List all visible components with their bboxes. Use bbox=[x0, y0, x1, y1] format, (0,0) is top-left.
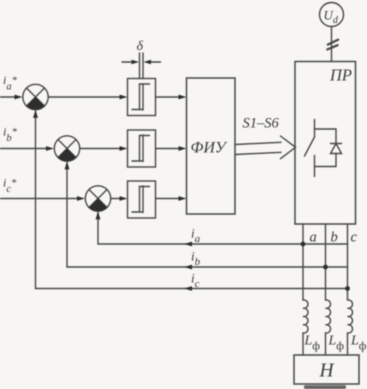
transistor switch VT inside PR bbox=[305, 120, 337, 177]
svg-text:ФИУ: ФИУ bbox=[191, 140, 228, 157]
filter inductor L_f phase c bbox=[348, 300, 353, 355]
svg-text:δ: δ bbox=[137, 39, 144, 54]
summing junction S1 (phase a comparator) bbox=[23, 84, 48, 109]
svg-text:Lф: Lф bbox=[304, 334, 321, 353]
svg-text:ic: ic bbox=[191, 271, 200, 291]
delta measuring arrow right bbox=[144, 60, 161, 64]
wire input i_b* into S2 bbox=[0, 146, 54, 151]
hysteresis relay block RB2 bbox=[128, 130, 156, 167]
diode VD antiparallel inside PR bbox=[331, 129, 342, 167]
arrowhead on i_a wire bbox=[184, 242, 192, 247]
wire U_d to PR bbox=[331, 27, 333, 62]
svg-text:ib*: ib* bbox=[3, 125, 18, 145]
junction node a bbox=[301, 242, 306, 247]
hysteresis relay block RB1 bbox=[128, 79, 156, 116]
wire S3 to relay block RB3 bbox=[111, 196, 128, 201]
block FIU (pulse former unit) bbox=[187, 78, 236, 214]
break slashes on DC link wire bbox=[327, 40, 338, 50]
svg-text:Ud: Ud bbox=[324, 8, 339, 27]
wire S1 to relay block RB1 bbox=[48, 95, 127, 100]
svg-text:Н: Н bbox=[319, 361, 335, 382]
feedback wire i_a from node a to S3 bbox=[96, 211, 348, 244]
svg-text:ic*: ic* bbox=[3, 176, 17, 196]
filter inductor L_f phase b bbox=[326, 300, 331, 355]
wire input i_c* into S3 bbox=[0, 196, 85, 201]
delta measuring arrow left bbox=[122, 60, 139, 64]
wire input i_a* into S1 bbox=[0, 95, 23, 100]
svg-text:ia*: ia* bbox=[3, 73, 18, 93]
svg-text:Lф: Lф bbox=[350, 334, 367, 353]
junction node c bbox=[345, 286, 350, 291]
source U_d circle bbox=[320, 3, 344, 27]
block H (load) bbox=[294, 355, 359, 384]
summing junction S3 (phase c comparator) bbox=[85, 186, 110, 211]
feedback wire i_c from node c to S1 bbox=[33, 110, 348, 289]
svg-text:a: a bbox=[310, 230, 317, 246]
wire RB1 to FIU bbox=[156, 95, 187, 100]
phase wire c from PR bbox=[347, 224, 349, 300]
junction node b bbox=[323, 265, 328, 270]
svg-text:S1–S6: S1–S6 bbox=[243, 116, 280, 132]
svg-text:c: c bbox=[351, 230, 358, 246]
wire S2 to relay block RB2 bbox=[80, 146, 128, 151]
svg-text:ia: ia bbox=[191, 226, 201, 246]
hysteresis relay block RB3 bbox=[128, 181, 156, 218]
wire RB3 to FIU bbox=[156, 196, 187, 201]
block PR (converter) bbox=[295, 62, 356, 225]
bus arrow S1-S6 from FIU to PR bbox=[235, 136, 296, 159]
wire RB2 to FIU bbox=[156, 146, 187, 151]
phase wire a from PR bbox=[302, 224, 304, 300]
scan smudge bottom edge bbox=[304, 385, 346, 389]
arrowhead on i_b wire bbox=[184, 265, 192, 270]
delta threshold ticks above RB1 bbox=[140, 53, 144, 79]
arrowhead on i_c wire bbox=[184, 286, 192, 291]
filter inductor L_f phase a bbox=[303, 300, 308, 355]
svg-text:Lф: Lф bbox=[328, 334, 345, 353]
svg-text:b: b bbox=[331, 230, 338, 246]
summing junction S2 (phase b comparator) bbox=[54, 136, 79, 161]
svg-text:ПР: ПР bbox=[329, 66, 352, 85]
feedback wire i_b from node b to S2 bbox=[65, 161, 348, 267]
svg-text:ib: ib bbox=[191, 249, 201, 269]
phase wire b from PR bbox=[325, 224, 327, 300]
